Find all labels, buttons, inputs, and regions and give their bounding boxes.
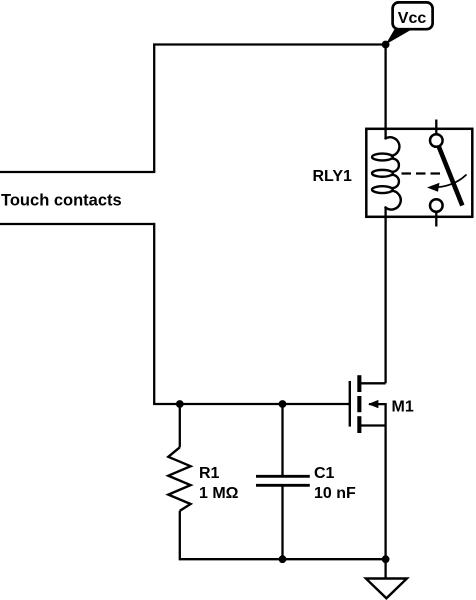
- wire C1 top lead: [281, 404, 283, 476]
- svg-text:RLY1: RLY1: [313, 168, 353, 185]
- wire upper touch contact horizontal: [0, 171, 155, 173]
- Vcc flag pointer: [386, 29, 412, 44]
- resistor R1 zigzag: [168, 447, 190, 511]
- wire lower touch contact horizontal: [0, 223, 154, 225]
- wire source vertical to ground rail: [384, 426, 386, 560]
- relay RLY1 box: [366, 129, 472, 217]
- capacitor C1 top plate: [256, 475, 310, 478]
- mosfet M1 body lead: [369, 404, 386, 425]
- svg-text:Vcc: Vcc: [398, 10, 427, 27]
- mosfet M1 source lead: [359, 424, 385, 426]
- node junction at C1 bottom: [279, 555, 287, 563]
- svg-text:1 MΩ: 1 MΩ: [199, 485, 239, 502]
- wire drain vertical to relay: [384, 207, 386, 384]
- wire R1 top lead: [179, 404, 181, 447]
- capacitor C1 bottom plate: [256, 484, 310, 487]
- node junction at R1 top: [176, 400, 184, 408]
- mosfet M1 drain contact bar: [357, 375, 361, 392]
- wire R1 bottom lead: [180, 511, 386, 559]
- svg-text:R1: R1: [199, 465, 220, 482]
- mosfet M1 source contact bar: [357, 416, 361, 433]
- relay switch bottom stub: [435, 212, 437, 227]
- svg-text:Touch contacts: Touch contacts: [1, 191, 122, 209]
- wire Vcc vertical into relay coil: [384, 45, 386, 140]
- mosfet M1 drain lead: [359, 382, 385, 384]
- node junction Vcc: [382, 41, 390, 49]
- relay coil: [372, 137, 401, 209]
- relay switch top contact circle: [430, 134, 443, 147]
- Vcc flag box: [393, 2, 433, 29]
- relay dashed link: [402, 172, 442, 174]
- relay switch motion arc: [432, 175, 467, 188]
- relay switch blade: [439, 147, 463, 206]
- wire gate horizontal: [153, 403, 350, 405]
- wire left vertical lower: [153, 223, 155, 404]
- mosfet M1 body arrow: [368, 400, 378, 408]
- node junction at C1 top: [279, 400, 287, 408]
- wire C1 bottom lead: [281, 485, 283, 559]
- svg-text:10 nF: 10 nF: [314, 485, 356, 502]
- relay switch top stub: [435, 120, 437, 135]
- svg-text:C1: C1: [314, 465, 335, 482]
- mosfet M1 body contact bar: [357, 396, 361, 412]
- ground symbol: [366, 579, 407, 599]
- wire ground stub: [384, 559, 386, 578]
- wire left vertical upper: [153, 43, 155, 172]
- relay switch arrowhead: [427, 183, 440, 192]
- relay switch bottom contact circle: [430, 199, 443, 212]
- svg-text:M1: M1: [392, 398, 414, 415]
- wire top horizontal from Vcc node to left vertical: [154, 43, 385, 45]
- mosfet M1 gate bar: [349, 381, 351, 427]
- node junction at ground: [382, 555, 390, 563]
